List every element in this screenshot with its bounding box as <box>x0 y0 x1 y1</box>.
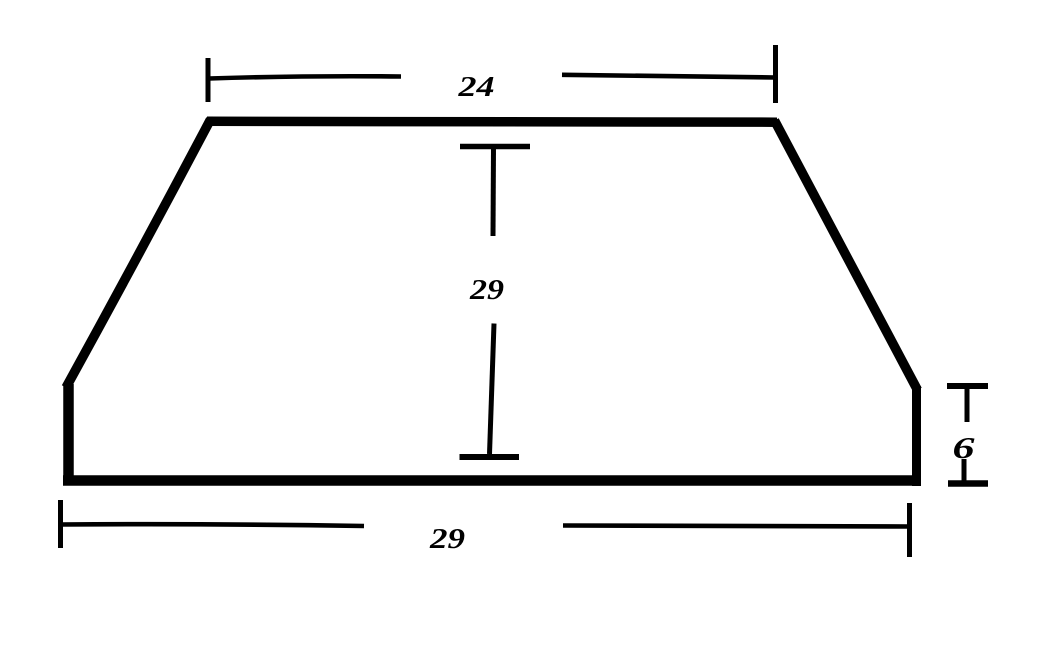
svg-text:24: 24 <box>457 71 494 103</box>
svg-text:29: 29 <box>429 523 465 555</box>
svg-text:29: 29 <box>469 274 504 306</box>
svg-text:6: 6 <box>953 430 976 465</box>
